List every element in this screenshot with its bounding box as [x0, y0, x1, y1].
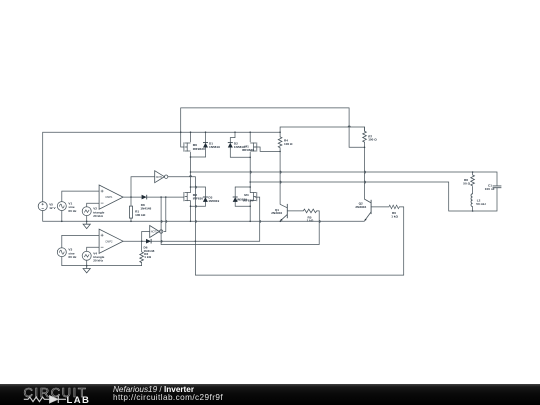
resistor R7	[363, 131, 367, 142]
transistor Q1	[280, 204, 287, 221]
wire NOT2 output up to node B	[164, 197, 166, 231]
svg-text:1N4148: 1N4148	[140, 206, 151, 210]
wire D5 top link	[235, 186, 250, 188]
mosfet M0	[184, 142, 191, 151]
svg-text:1N5819: 1N5819	[209, 145, 220, 149]
resistor R6	[389, 205, 399, 209]
wire 12V rail riser to R4/R7 feed	[280, 127, 364, 132]
wire M0 gate net from R7 bottom	[181, 108, 365, 147]
wire R4 top leads	[279, 132, 281, 137]
wire D3 bottom link	[191, 205, 206, 207]
resistor R4	[278, 137, 282, 148]
svg-text:2N3904: 2N3904	[355, 205, 366, 209]
resistor R1 (box style)	[129, 206, 132, 218]
wire Q1 base to R5	[287, 210, 319, 212]
svg-text:2N3904: 2N3904	[271, 211, 282, 215]
CircuitLab logo	[0, 384, 110, 405]
svg-text:NOT1: NOT1	[156, 176, 163, 179]
resistor R2	[140, 252, 144, 263]
diode D3	[203, 197, 208, 202]
wire V2 to CMP1 minus input	[87, 203, 99, 207]
svg-text:100 nF: 100 nF	[485, 187, 495, 191]
wire D3 leads	[204, 187, 206, 206]
svg-text:IRF9630: IRF9630	[193, 147, 205, 151]
wire V5 plus to 12V rail	[43, 132, 280, 202]
wire node B down to Q1 base resistor line	[161, 197, 319, 244]
wire common rail	[43, 211, 365, 222]
wire V4 to CMP2 minus input	[87, 247, 99, 251]
diode D5	[233, 197, 238, 202]
wire M1 drain to rail	[249, 132, 251, 142]
ground below V2	[83, 221, 90, 228]
wire R2 leads	[141, 241, 143, 265]
svg-text:CMP1: CMP1	[105, 195, 113, 199]
svg-text:IRF630: IRF630	[193, 197, 203, 201]
svg-text:20 kHz: 20 kHz	[93, 259, 103, 263]
diode D6	[146, 239, 151, 244]
capacitor C1	[493, 186, 502, 188]
svg-text:100 Ω: 100 Ω	[284, 142, 293, 146]
wire D2 bottom	[229, 147, 231, 157]
op-amp CMP1	[99, 185, 123, 209]
svg-text:100 kΩ: 100 kΩ	[135, 213, 146, 217]
wire M1 gate to R4 bottom	[255, 147, 280, 151]
inverter NOT1	[155, 171, 168, 183]
svg-text:50 mH: 50 mH	[476, 202, 486, 206]
voltage source V3 sine	[57, 248, 66, 257]
voltage source V1 sine	[57, 202, 66, 211]
wire L2 bottom lead	[472, 207, 474, 211]
op-amp CMP2	[99, 229, 123, 253]
wire NOT1 output to M4 gate net	[168, 177, 403, 275]
mosfet M1 (mirrored)	[250, 142, 257, 151]
svg-text:1 kΩ: 1 kΩ	[144, 255, 151, 259]
wire D1 leads	[205, 132, 207, 157]
wire V3 to CMP2 plus input	[62, 235, 99, 247]
voltage source V4 triangle	[82, 251, 91, 260]
mosfet M2	[184, 192, 191, 201]
diode D8	[142, 195, 147, 200]
svg-text:60 Hz: 60 Hz	[68, 209, 77, 213]
svg-text:1 kΩ: 1 kΩ	[391, 214, 398, 218]
svg-text:12 V: 12 V	[49, 206, 56, 210]
wire R1 leads	[130, 197, 132, 221]
svg-text:LAB: LAB	[67, 395, 91, 405]
wire R7 top lead	[364, 127, 366, 131]
wire R8 leads	[472, 172, 474, 194]
inverter NOT2	[150, 226, 163, 238]
wire NOT2 input branch	[142, 232, 150, 242]
footer title text	[113, 386, 223, 402]
resistor R8	[471, 175, 475, 186]
voltage source V2 triangle	[82, 207, 91, 216]
diode D1	[203, 143, 208, 148]
wire D5 bottom link	[235, 205, 250, 207]
mosfet M4 (mirrored)	[250, 192, 257, 201]
svg-text:1N5819: 1N5819	[208, 199, 219, 203]
wire output rail OUT1	[191, 172, 498, 186]
wire Q2 base to R6	[371, 206, 404, 208]
svg-text:IRF630: IRF630	[243, 199, 253, 203]
wire CMP2 output to D6	[123, 240, 146, 242]
svg-text:60 Hz: 60 Hz	[68, 255, 77, 259]
svg-text:50 Ω: 50 Ω	[463, 181, 470, 185]
wire D3 top link	[191, 186, 206, 188]
voltage source V5	[38, 202, 47, 211]
svg-text:CMP2: CMP2	[105, 239, 113, 243]
wire R4 bottom to Q1 collector	[279, 148, 281, 205]
wire CMP1 output to M2 gate	[123, 196, 184, 198]
transistor Q2	[365, 199, 372, 221]
wire D2 top jog	[230, 132, 235, 142]
svg-text:NOT2: NOT2	[151, 231, 158, 234]
wire V1 to CMP1 plus input	[62, 191, 99, 202]
inductor L2	[471, 194, 473, 207]
wire M0 drain to rail	[190, 132, 192, 142]
wire lower ground return	[62, 257, 142, 266]
wire R7 bottom to Q2 collector	[364, 142, 366, 199]
svg-text:20 kHz: 20 kHz	[93, 214, 103, 218]
wire V2 bottom	[86, 216, 88, 222]
logo resistor-diode wire	[24, 396, 66, 403]
wire NOT1 input branch	[131, 177, 155, 197]
svg-text:100 Ω: 100 Ω	[368, 138, 377, 142]
wire D2 bottom link to M1	[230, 156, 250, 158]
wire D5 leads	[234, 187, 236, 206]
wire V4 bottom	[86, 260, 88, 265]
diode D2	[228, 143, 233, 148]
svg-text:1 kΩ: 1 kΩ	[307, 219, 314, 223]
wire hop bumps at crossings	[161, 126, 365, 243]
wire D6 cathode to M4 gate	[151, 197, 260, 241]
wire output rail OUT2 to load bottom	[250, 182, 497, 211]
ground below V4	[83, 266, 90, 273]
resistor R5	[303, 209, 316, 213]
wire M0 source / M2 drain column	[190, 152, 192, 221]
wire M1 source / M4 drain column	[249, 152, 251, 221]
svg-text:IRF9630: IRF9630	[242, 148, 254, 152]
wire D1 bottom link	[191, 156, 206, 158]
wire V1 bottom	[61, 211, 63, 222]
